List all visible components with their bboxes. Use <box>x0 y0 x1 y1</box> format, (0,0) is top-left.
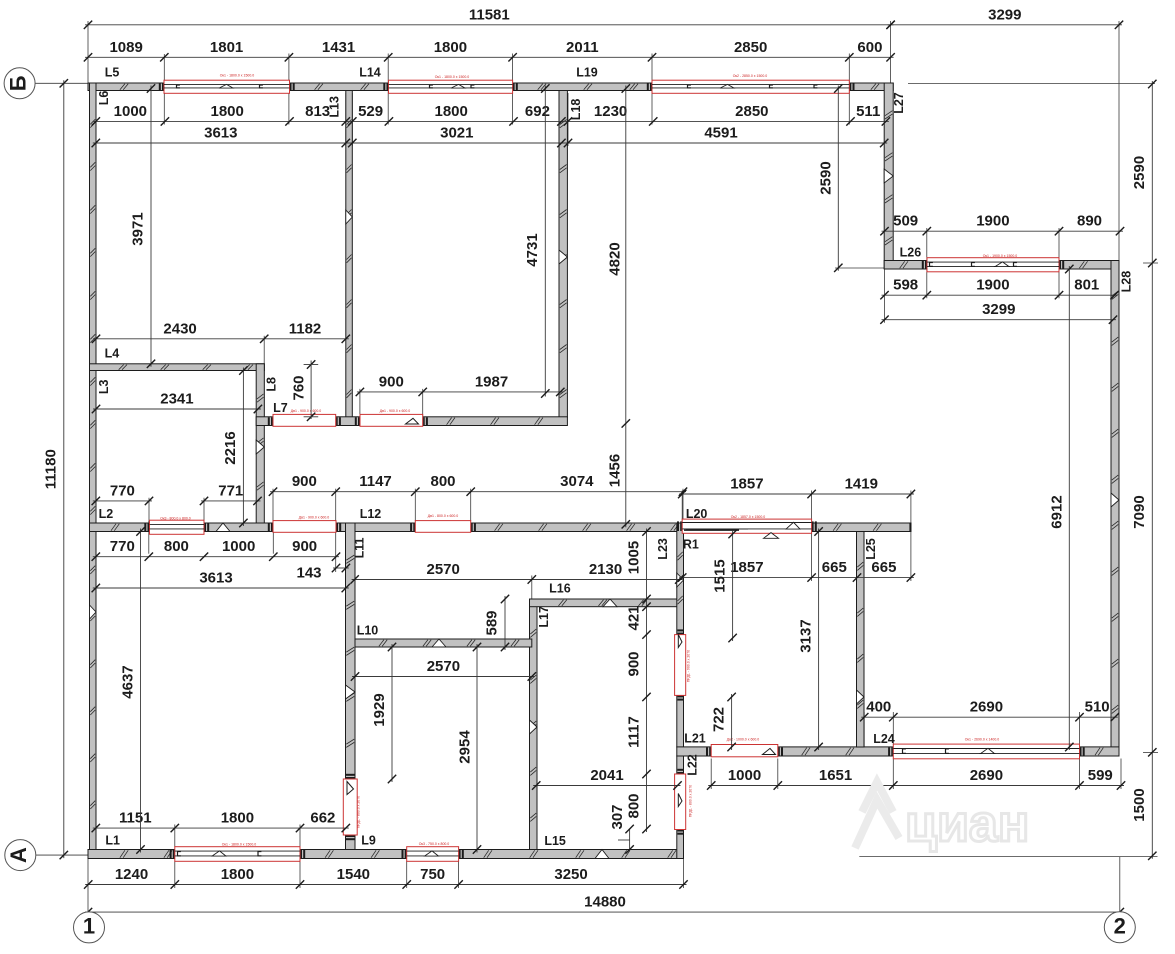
svg-text:11180: 11180 <box>42 449 59 489</box>
wall L27 <box>884 83 893 269</box>
svg-text:813: 813 <box>305 103 330 120</box>
dim 589 <box>504 596 506 650</box>
wall L13 <box>346 91 353 418</box>
dim row 400-2690-510 <box>861 716 1118 718</box>
svg-text:L12: L12 <box>360 507 382 521</box>
svg-text:890: 890 <box>1077 213 1102 230</box>
dim row 3299 top <box>888 24 1122 26</box>
svg-text:3250: 3250 <box>554 866 587 883</box>
svg-text:Ок2 - 2850.0 х 1500.0: Ок2 - 2850.0 х 1500.0 <box>733 74 767 78</box>
dim row 1857-1419 <box>679 493 914 495</box>
svg-text:Дв1 - 900.0 х 600.0: Дв1 - 900.0 х 600.0 <box>291 409 322 413</box>
wall mid horizontal L7 <box>256 417 273 426</box>
svg-text:1801: 1801 <box>210 39 243 56</box>
svg-text:L1: L1 <box>105 833 120 847</box>
svg-text:307: 307 <box>609 804 626 829</box>
svg-text:Ок1 - 2690.0 х 1400.0: Ок1 - 2690.0 х 1400.0 <box>965 738 999 742</box>
svg-text:14880: 14880 <box>584 894 626 911</box>
dim stack 1005-421-900-1117-800 <box>646 529 648 833</box>
svg-text:662: 662 <box>310 810 335 827</box>
svg-text:1800: 1800 <box>434 39 467 56</box>
svg-text:Ок1 - 1800.0 х 1500.0: Ок1 - 1800.0 х 1500.0 <box>220 73 254 77</box>
wall L10 <box>355 639 532 647</box>
svg-text:Б: Б <box>5 75 30 91</box>
svg-text:Дв1 - 800.0 х 600.0: Дв1 - 800.0 х 600.0 <box>428 514 459 518</box>
dim 2216 <box>242 368 244 527</box>
svg-text:L22: L22 <box>685 754 699 776</box>
svg-text:Ок2 - 1857.0 х 1500.0: Ок2 - 1857.0 х 1500.0 <box>731 515 765 519</box>
dim row 1000-1651-2690-599 <box>708 785 1124 787</box>
window bottom small <box>402 850 404 858</box>
svg-text:Ок3 - 750.0 х 800.0: Ок3 - 750.0 х 800.0 <box>419 842 450 846</box>
svg-text:6912: 6912 <box>1048 495 1065 528</box>
svg-text:900: 900 <box>625 651 642 676</box>
wall right vertical L23-L22 <box>677 523 684 635</box>
svg-text:1431: 1431 <box>322 39 355 56</box>
dim row 1857-665-665 <box>679 577 914 579</box>
svg-text:3971: 3971 <box>129 212 146 245</box>
svg-text:4731: 4731 <box>524 233 541 266</box>
wall exterior left <box>90 83 97 859</box>
wall exterior top <box>88 83 164 91</box>
svg-text:1800: 1800 <box>211 103 244 120</box>
svg-text:3299: 3299 <box>982 301 1015 318</box>
svg-text:L16: L16 <box>549 581 571 595</box>
window L1 <box>170 850 172 858</box>
svg-text:760: 760 <box>290 375 307 400</box>
svg-text:4637: 4637 <box>119 665 136 698</box>
svg-text:2130: 2130 <box>589 561 622 578</box>
svg-text:771: 771 <box>218 482 243 499</box>
dim row 2570 lower <box>352 676 535 678</box>
svg-text:11581: 11581 <box>469 6 510 23</box>
svg-text:L11: L11 <box>352 537 366 558</box>
svg-text:2011: 2011 <box>566 39 599 56</box>
svg-text:1651: 1651 <box>819 767 852 784</box>
svg-text:L21: L21 <box>684 731 706 745</box>
svg-text:600: 600 <box>857 39 882 56</box>
svg-text:L6: L6 <box>97 91 111 106</box>
svg-text:2216: 2216 <box>222 431 239 464</box>
svg-text:1182: 1182 <box>289 320 322 337</box>
svg-text:900: 900 <box>379 373 404 390</box>
dim row 2430-1182 <box>93 338 349 340</box>
svg-text:Ок1 - 1900.0 х 1500.0: Ок1 - 1900.0 х 1500.0 <box>983 254 1017 258</box>
svg-text:3613: 3613 <box>199 569 232 586</box>
window L14 <box>383 84 385 91</box>
svg-text:2: 2 <box>1114 914 1126 939</box>
svg-text:L28: L28 <box>1119 271 1133 293</box>
window L26 <box>922 261 924 269</box>
svg-text:1800: 1800 <box>221 810 254 827</box>
dim 1515 <box>732 531 734 641</box>
dim row top chain <box>85 56 894 58</box>
svg-text:599: 599 <box>1088 767 1113 784</box>
dim row 2570-2130 <box>352 579 683 581</box>
axis circle A <box>5 840 36 871</box>
svg-text:1147: 1147 <box>359 473 392 490</box>
svg-text:L24: L24 <box>873 732 895 746</box>
dim 307 <box>629 829 631 850</box>
svg-text:421: 421 <box>625 605 642 630</box>
svg-text:1929: 1929 <box>371 693 388 726</box>
svg-text:1000: 1000 <box>728 767 761 784</box>
svg-text:692: 692 <box>525 103 550 120</box>
wall L4 <box>90 364 265 371</box>
door L22 vertical <box>677 769 683 771</box>
dim row 1151-1800-662 <box>93 827 349 829</box>
dim row 3613-3021-4591 <box>93 142 887 144</box>
wall L21-L24 bottom right <box>677 747 711 756</box>
dim 4820-1456 <box>625 86 627 528</box>
wall L18 <box>559 91 567 418</box>
window L24 <box>888 747 890 755</box>
svg-text:2341: 2341 <box>160 390 193 407</box>
door L12b <box>410 524 412 532</box>
svg-text:511: 511 <box>856 103 880 120</box>
dim row 3613 bottom <box>93 587 349 589</box>
svg-text:3021: 3021 <box>440 124 473 141</box>
svg-text:510: 510 <box>1085 699 1110 716</box>
svg-text:7090: 7090 <box>1131 495 1148 528</box>
door corridor vertical <box>677 629 683 631</box>
svg-text:400: 400 <box>866 699 891 716</box>
svg-text:589: 589 <box>483 610 500 635</box>
svg-text:циан: циан <box>905 795 1029 853</box>
radiator R1 <box>684 529 739 531</box>
dim 2590-7090-1500 right <box>1151 81 1153 859</box>
svg-text:L27: L27 <box>892 92 906 114</box>
svg-text:1857: 1857 <box>730 475 763 492</box>
dim row 771 <box>201 500 261 502</box>
svg-text:1230: 1230 <box>594 103 627 120</box>
svg-text:L15: L15 <box>544 834 566 848</box>
svg-text:L10: L10 <box>357 623 379 637</box>
svg-text:2570: 2570 <box>427 561 460 578</box>
door L7b <box>355 417 357 425</box>
svg-text:L25: L25 <box>864 538 878 560</box>
dim row top interior <box>93 120 889 122</box>
window L19 <box>647 84 649 91</box>
svg-text:2041: 2041 <box>590 767 623 784</box>
svg-text:722: 722 <box>710 707 727 732</box>
svg-text:L13: L13 <box>328 96 342 118</box>
svg-text:509: 509 <box>893 213 918 230</box>
svg-text:801: 801 <box>1074 277 1099 294</box>
svg-text:1800: 1800 <box>221 866 254 883</box>
svg-text:3137: 3137 <box>797 619 814 652</box>
door L12a <box>268 524 270 532</box>
window L5 <box>159 84 161 91</box>
dim row 770-771 <box>93 500 152 502</box>
dim 143 <box>333 567 349 569</box>
svg-text:L14: L14 <box>359 65 381 79</box>
joint triangle under window L20 <box>764 533 779 539</box>
wall end cap L20 <box>909 523 911 531</box>
svg-text:2570: 2570 <box>427 658 460 675</box>
svg-text:1000: 1000 <box>222 538 255 555</box>
svg-text:3299: 3299 <box>988 6 1021 23</box>
svg-text:ПРД1 - 900.0 х 2070: ПРД1 - 900.0 х 2070 <box>686 650 690 682</box>
svg-text:598: 598 <box>893 277 918 294</box>
dim row 14880 <box>85 911 1123 913</box>
wall mid horizontal L2-L12-L20 <box>90 523 150 532</box>
dim 2954 <box>476 644 478 853</box>
svg-text:1857: 1857 <box>730 559 763 576</box>
wall exterior bottom <box>88 850 175 859</box>
window L20 inner line <box>686 528 748 530</box>
svg-text:1540: 1540 <box>337 866 370 883</box>
svg-text:2690: 2690 <box>970 767 1003 784</box>
svg-text:L26: L26 <box>900 245 922 259</box>
svg-text:1419: 1419 <box>845 475 878 492</box>
svg-text:3074: 3074 <box>560 473 594 490</box>
svg-text:143: 143 <box>296 564 321 581</box>
svg-text:750: 750 <box>420 866 445 883</box>
dim row 2341 <box>93 408 261 410</box>
svg-text:3613: 3613 <box>204 124 237 141</box>
svg-text:2954: 2954 <box>456 730 473 764</box>
svg-text:665: 665 <box>871 559 896 576</box>
axis line B <box>35 82 90 84</box>
dim 3971 <box>150 86 152 367</box>
svg-text:1900: 1900 <box>976 213 1009 230</box>
svg-text:770: 770 <box>110 538 135 555</box>
wall mid vertical L8 <box>256 364 264 532</box>
svg-text:1240: 1240 <box>115 866 148 883</box>
axis circle B <box>4 68 35 99</box>
svg-text:L3: L3 <box>97 379 111 394</box>
axis line A <box>36 854 90 856</box>
svg-text:Ок1 - 1800.0 х 1500.0: Ок1 - 1800.0 х 1500.0 <box>435 75 469 79</box>
svg-text:800: 800 <box>625 793 642 818</box>
svg-text:Ок1 - 1800.0 х 1500.0: Ок1 - 1800.0 х 1500.0 <box>222 842 256 846</box>
svg-text:900: 900 <box>292 538 317 555</box>
svg-text:800: 800 <box>164 538 189 555</box>
dim row 900-1147-800-3074 <box>270 491 686 493</box>
svg-text:2590: 2590 <box>1131 156 1148 189</box>
svg-text:1456: 1456 <box>606 454 623 487</box>
door L21 <box>706 747 708 755</box>
axis circle 1 <box>74 912 105 943</box>
dim row bottom chain <box>85 884 686 886</box>
dim 4637 <box>140 529 142 853</box>
dim 1929 <box>391 644 393 782</box>
svg-text:1089: 1089 <box>109 39 142 56</box>
wall L28 right <box>1111 261 1119 757</box>
svg-text:А: А <box>6 847 31 863</box>
svg-text:L8: L8 <box>264 377 278 392</box>
svg-text:4591: 4591 <box>704 124 737 141</box>
dim 2590 left <box>837 86 839 271</box>
svg-text:1151: 1151 <box>119 810 152 827</box>
svg-text:L23: L23 <box>656 538 670 560</box>
watermark cian logo <box>855 782 899 848</box>
wall L16 <box>530 599 684 607</box>
svg-text:1: 1 <box>83 914 95 939</box>
svg-text:770: 770 <box>110 482 135 499</box>
svg-text:1000: 1000 <box>114 103 147 120</box>
window L20 <box>677 521 679 531</box>
svg-text:2850: 2850 <box>734 39 767 56</box>
svg-text:2850: 2850 <box>735 103 768 120</box>
svg-text:L4: L4 <box>105 346 120 360</box>
door L7 <box>268 417 270 425</box>
axis circle 2 <box>1104 912 1135 943</box>
dim row 598-1900-801 <box>882 294 1118 296</box>
svg-text:ПРД1 - 800.0 х 2070: ПРД1 - 800.0 х 2070 <box>356 796 360 828</box>
dim row 3299 bottom <box>882 319 1117 321</box>
svg-text:L2: L2 <box>99 507 114 521</box>
wall L26 <box>884 261 927 270</box>
svg-text:665: 665 <box>822 559 847 576</box>
svg-text:1515: 1515 <box>711 559 728 592</box>
svg-text:Дв1 - 900.0 х 600.0: Дв1 - 900.0 х 600.0 <box>380 409 411 413</box>
svg-text:L9: L9 <box>361 833 376 847</box>
svg-text:529: 529 <box>358 103 383 120</box>
svg-text:1500: 1500 <box>1131 788 1148 821</box>
wall L11 <box>346 523 356 779</box>
dim row 11581 <box>85 24 894 26</box>
svg-text:900: 900 <box>292 473 317 490</box>
svg-text:L19: L19 <box>576 65 598 79</box>
door L9 vertical <box>346 774 355 776</box>
dim 722 <box>731 694 733 750</box>
svg-text:L18: L18 <box>569 99 583 121</box>
dim 760 <box>310 361 312 420</box>
svg-text:1800: 1800 <box>435 103 468 120</box>
svg-text:1900: 1900 <box>976 277 1009 294</box>
dim 3137 <box>818 529 820 751</box>
dim row 770-800-1000-900 <box>93 556 339 558</box>
svg-text:2590: 2590 <box>817 161 834 194</box>
svg-text:L20: L20 <box>686 507 708 521</box>
dim row 2041 <box>533 785 680 787</box>
window L2 <box>144 524 146 532</box>
dim 11180 <box>63 80 65 858</box>
svg-text:800: 800 <box>430 473 455 490</box>
svg-text:1005: 1005 <box>625 541 642 574</box>
dim 6912 <box>1068 266 1070 750</box>
svg-text:1117: 1117 <box>625 716 642 748</box>
dim 4731 <box>544 86 546 397</box>
svg-text:2430: 2430 <box>163 320 196 337</box>
wall L25 <box>857 532 865 748</box>
svg-text:Ок3 - 800.0 х 800.0: Ок3 - 800.0 х 800.0 <box>160 516 191 520</box>
svg-text:4820: 4820 <box>606 242 623 275</box>
svg-text:Дв1 - 900.0 х 600.0: Дв1 - 900.0 х 600.0 <box>299 515 330 519</box>
svg-text:2690: 2690 <box>970 699 1003 716</box>
svg-text:L7: L7 <box>273 401 288 415</box>
extension lines (under walls) <box>87 21 89 83</box>
svg-text:1987: 1987 <box>475 373 508 390</box>
dim row 509-1900-890 <box>882 230 1124 232</box>
svg-text:R1: R1 <box>683 537 699 551</box>
dim row 900-1987 <box>357 391 563 393</box>
wall L17-L15 <box>530 599 538 850</box>
svg-text:ПРД1 - 800.0 х 2070: ПРД1 - 800.0 х 2070 <box>688 785 692 817</box>
svg-text:L5: L5 <box>105 65 120 79</box>
svg-text:L17: L17 <box>537 606 551 628</box>
